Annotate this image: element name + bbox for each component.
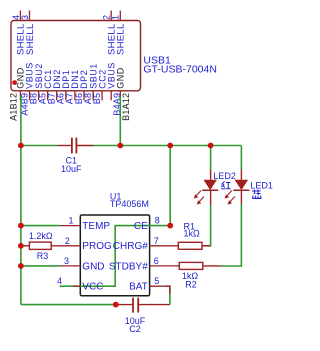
node junction at 20.9,225.6: [18, 223, 24, 229]
resistor R3 body: [29, 242, 51, 249]
U1 pin 6 STDBY# stub: [150, 265, 180, 267]
resistor R1 body: [178, 242, 202, 249]
resistor R3 left lead: [21, 245, 30, 247]
capacitor C2 right lead: [138, 304, 170, 306]
wire BAT corner red overlay: [166, 286, 170, 294]
wire LED2 cathode to R1: [202, 205, 211, 246]
LED D2 triangle: [204, 180, 216, 189]
wire bottom rail: [21, 304, 116, 306]
svg-text:GND: GND: [116, 67, 126, 89]
node junction at 170.2,145.5: [167, 143, 173, 149]
USB1 pin A6 stub: [65, 91, 67, 101]
svg-text:1: 1: [68, 216, 73, 226]
USB1 pin A4B9 stub: [29, 91, 31, 101]
USB1 pin 1 SHELL stub: [119, 11, 121, 21]
LED D2 cathode bar: [202, 189, 218, 191]
wire BAT pin to bottom rail: [166, 286, 170, 304]
svg-text:1: 1: [111, 15, 121, 20]
wire main horizontal left of C1: [21, 145, 57, 147]
wire LED1 anode from top net: [240, 146, 242, 170]
LED D1 cathode lead: [240, 190, 242, 204]
wire CE stub green over pin: [150, 225, 171, 227]
node junction at 170.2,225.6: [167, 223, 173, 229]
capacitor C1 left lead: [57, 145, 72, 147]
svg-text:CE: CE: [134, 221, 148, 232]
U1 pin 4 VCC stub: [73, 285, 80, 287]
wire LED2 anode from top net: [210, 146, 212, 170]
U1 pin 1 TEMP stub: [60, 225, 81, 227]
svg-text:LED1: LED1: [250, 180, 273, 190]
LED D1 triangle: [235, 180, 247, 189]
wire LED1 cathode to R2: [221, 204, 242, 267]
LED D2 emission arrows: [194, 191, 204, 205]
svg-text:PROG: PROG: [82, 241, 112, 252]
svg-text:VCC: VCC: [82, 282, 103, 293]
node junction at 210.6,145.5: [208, 143, 214, 149]
svg-text:3: 3: [20, 15, 30, 20]
svg-text:1.2kΩ: 1.2kΩ: [29, 231, 53, 241]
node junction at 20.9,245.8: [18, 243, 24, 249]
capacitor C2 left lead: [116, 304, 133, 306]
wire TEMP row: [21, 225, 60, 227]
svg-text:BAT: BAT: [129, 282, 148, 293]
USB1 pin A7 stub: [74, 91, 76, 101]
op-amp U1 TP4056M body: [80, 215, 149, 296]
svg-text:5: 5: [154, 276, 159, 286]
wire from USB1 GND pin B1A12 down: [119, 96, 121, 146]
wire CE to VCC over chip: [60, 226, 150, 287]
svg-text:TP4056M: TP4056M: [110, 199, 149, 209]
wire main horizontal right of C1: [94, 145, 242, 147]
node junction at 115.8,304.6: [113, 302, 119, 308]
svg-text:SHELL: SHELL: [25, 23, 36, 55]
USB1 pin B1A12 stub: [119, 91, 121, 101]
node junction at 14.6,82.6: [12, 80, 17, 85]
resistor R2 body: [179, 262, 203, 269]
svg-text:6: 6: [154, 256, 159, 266]
USB1 pin B7 stub: [56, 91, 58, 101]
USB1 pin 2 SHELL stub: [110, 11, 112, 21]
USB1 pin B5 stub: [101, 91, 103, 101]
svg-text:GND: GND: [82, 261, 104, 272]
svg-text:GT-USB-7004N: GT-USB-7004N: [143, 63, 217, 75]
LED D2 anode lead: [210, 170, 212, 180]
svg-text:LED2: LED2: [213, 171, 236, 181]
wire GND row: [21, 265, 60, 267]
USB1 pin A5 stub: [47, 91, 49, 101]
capacitor C1 right lead: [76, 145, 93, 147]
resistor R1 right lead: [202, 245, 211, 247]
wire CE vertical from top net: [169, 146, 171, 226]
svg-text:B1A12: B1A12: [121, 93, 131, 121]
U1 pin 2 PROG stub: [51, 245, 80, 247]
svg-text:8: 8: [155, 216, 160, 226]
LED D1 cathode bar: [233, 189, 249, 191]
svg-text:STDBY#: STDBY#: [109, 261, 148, 272]
LED D1 emission arrows: [225, 191, 235, 205]
svg-text:4: 4: [57, 276, 62, 286]
USB1 pin B6 stub: [83, 91, 85, 101]
node junction at 20.9,145.5: [18, 143, 24, 149]
svg-text:2: 2: [65, 236, 70, 246]
U1 pin 3 GND stub: [60, 265, 81, 267]
USB1 pin B8 stub: [38, 91, 40, 101]
svg-text:R3: R3: [37, 251, 49, 261]
svg-text:10uF: 10uF: [61, 164, 82, 174]
svg-text:CHRG#: CHRG#: [113, 241, 148, 252]
svg-text:3: 3: [64, 256, 69, 266]
usb connector USB1 body: [11, 21, 141, 91]
node junction at 20.9,265.9: [18, 263, 24, 269]
U1 pin 5 BAT stub: [150, 285, 166, 287]
LED D1 label 蓝 (blue): [252, 190, 262, 199]
svg-text:C2: C2: [129, 324, 141, 334]
resistor R2 right lead: [203, 265, 221, 267]
USB1 pin B4A9 stub: [110, 91, 112, 101]
capacitor C1 plates: [71, 138, 73, 154]
LED D2 label 红 (red): [221, 182, 231, 189]
LED D2 cathode lead: [210, 190, 212, 205]
svg-text:B5: B5: [92, 93, 102, 104]
LED D1 anode lead: [240, 170, 242, 180]
svg-text:R2: R2: [185, 279, 197, 289]
capacitor C2 plates: [132, 298, 134, 313]
svg-text:TEMP: TEMP: [82, 221, 110, 232]
node junction at 120.3,145.5: [117, 143, 123, 149]
U1 pin 7 CHRG# stub: [150, 245, 179, 247]
svg-text:A1B12: A1B12: [9, 93, 19, 121]
USB1 pin 4 SHELL stub: [19, 11, 21, 21]
wire from USB1 GND pin A1B12 down: [20, 96, 22, 146]
USB1 pin 3 SHELL stub: [29, 11, 31, 21]
USB1 pin A8 stub: [92, 91, 94, 101]
USB1 pin A1B12 stub: [19, 91, 21, 101]
svg-text:7: 7: [154, 236, 159, 246]
wire left vertical rail: [20, 146, 22, 305]
svg-text:SHELL: SHELL: [116, 23, 127, 55]
svg-text:1kΩ: 1kΩ: [184, 229, 201, 239]
